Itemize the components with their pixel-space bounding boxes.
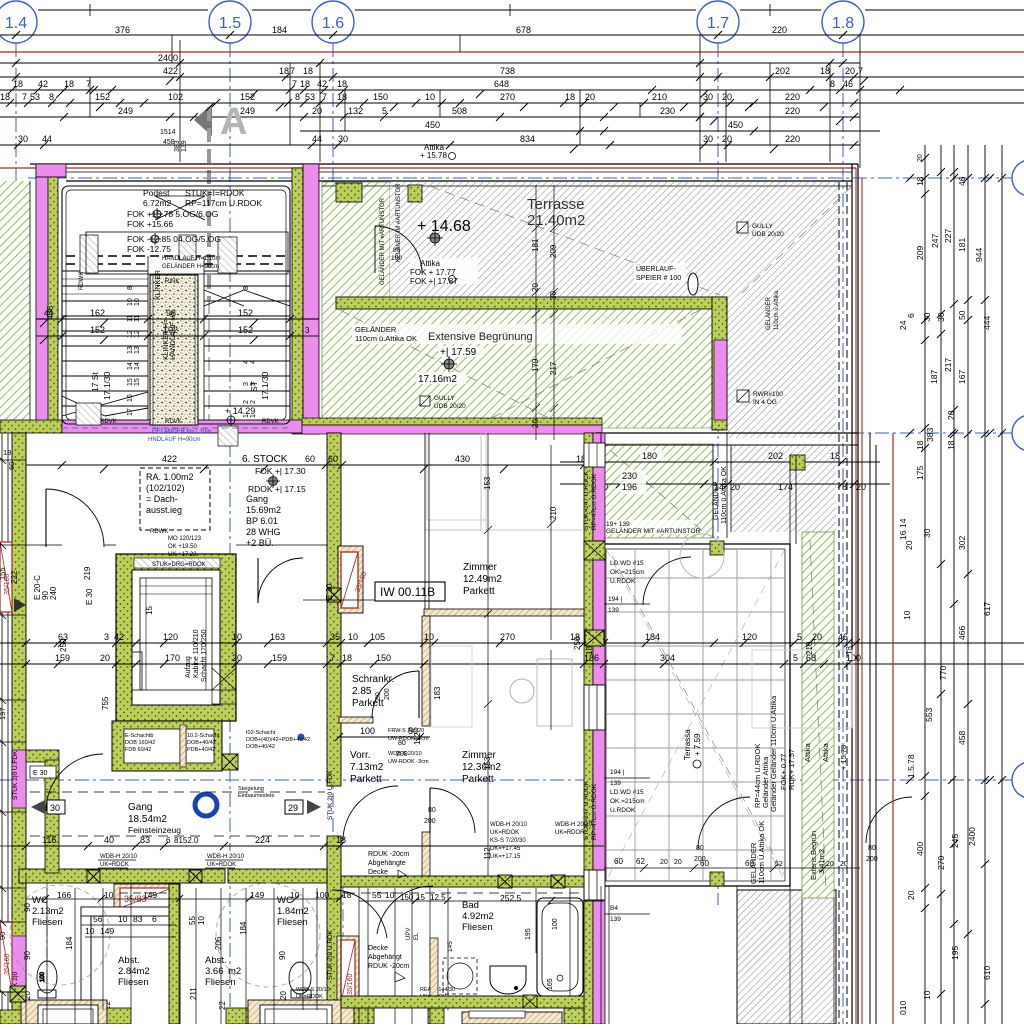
- svg-text:7: 7: [858, 66, 863, 76]
- grid bubble right y780: [1012, 762, 1024, 798]
- svg-text:20: 20: [312, 106, 322, 116]
- window IW00.11B tan frame: [338, 546, 368, 613]
- svg-text:STUK=DRG=RDOK: STUK=DRG=RDOK: [152, 562, 206, 568]
- hatched pillar a: [80, 235, 98, 273]
- dimension row y103: [0, 99, 1024, 107]
- svg-text:18: 18: [820, 66, 830, 76]
- svg-text:DOB+40/42: DOB+40/42: [246, 744, 275, 750]
- svg-text:227: 227: [943, 229, 953, 243]
- svg-text:195: 195: [950, 946, 960, 960]
- X junction right wall y630: [585, 630, 604, 646]
- wc left room: [32, 895, 64, 928]
- counter bottom mid: [248, 1000, 354, 1024]
- gang room label: [246, 494, 281, 548]
- svg-text:383: 383: [925, 428, 935, 442]
- svg-text:STUK=I=RDOK: STUK=I=RDOK: [185, 188, 245, 198]
- svg-text:STUK 2|0 U.FDK: STUK 2|0 U.FDK: [327, 770, 334, 820]
- podest inner box line: [86, 232, 288, 274]
- svg-text:2.85: 2.85: [352, 686, 372, 697]
- svg-text:UK +17.22: UK +17.22: [168, 552, 197, 558]
- right dim line x968: [964, 145, 972, 1024]
- svg-text:152: 152: [90, 325, 105, 335]
- svg-text:Fliesen: Fliesen: [118, 977, 149, 988]
- gang-zimmer wall green vertical: [327, 433, 341, 1024]
- gully on begruenung: [420, 395, 466, 410]
- svg-text:60: 60: [614, 857, 623, 866]
- svg-text:WC: WC: [277, 895, 293, 906]
- svg-text:20: 20: [904, 540, 914, 550]
- svg-text:Abgehängte: Abgehängte: [368, 860, 406, 867]
- svg-text:46: 46: [957, 176, 967, 186]
- svg-text:RDVK: RDVK: [100, 419, 117, 425]
- rduk abgehaengte decke note: [368, 851, 409, 878]
- svg-text:553: 553: [924, 708, 934, 722]
- stair riser numbers left: [127, 286, 141, 416]
- svg-text:40: 40: [104, 835, 114, 845]
- wc2 door arc: [332, 890, 387, 938]
- terrace slope dashed diagonals: [340, 186, 852, 890]
- right dim rotated texts: [898, 176, 992, 1015]
- grid axis horizontal y433: [600, 432, 1012, 434]
- svg-text:I02-Schacht: I02-Schacht: [246, 730, 276, 736]
- svg-text:102: 102: [168, 92, 183, 102]
- right dim line x1002: [998, 145, 1006, 1024]
- svg-text:1514: 1514: [160, 129, 176, 136]
- svg-text:944: 944: [974, 248, 984, 262]
- dim texts row y142: [18, 134, 800, 144]
- svg-text:466: 466: [957, 626, 967, 640]
- svg-text:8: 8: [49, 92, 54, 102]
- svg-text:FOK +15.66: FOK +15.66: [127, 219, 173, 229]
- svg-text:149: 149: [100, 926, 114, 936]
- stair blue dashed line bottom: [62, 427, 290, 429]
- left room wall stub: [26, 750, 59, 873]
- svg-text:+ 15.78: + 15.78: [839, 745, 848, 770]
- section cut line grey: [207, 107, 211, 428]
- svg-text:GULLY: GULLY: [434, 395, 455, 402]
- grid axis 1.8 vertical: [842, 43, 844, 1024]
- stair treads left flight: [62, 271, 148, 406]
- svg-text:WDB-H 20/10: WDB-H 20/10: [207, 854, 245, 860]
- svg-text:Terrasse: Terrasse: [527, 196, 585, 213]
- svg-text:ÜDB 20/20: ÜDB 20/20: [752, 230, 784, 238]
- row y465 ticks: [100, 465, 508, 473]
- svg-text:8152.0: 8152.0: [174, 836, 199, 845]
- svg-text:62: 62: [636, 857, 645, 866]
- svg-text:RDVK: RDVK: [165, 419, 182, 425]
- svg-text:4: 4: [250, 360, 257, 364]
- schrank bottom tan wall: [339, 717, 373, 723]
- svg-text:FOK + 17.77: FOK + 17.77: [410, 268, 456, 277]
- window 35x83: [114, 884, 179, 912]
- svg-text:DOB+(40)/42+PDB+40/42: DOB+(40)/42+PDB+40/42: [246, 737, 310, 743]
- terrace bottom wall y433: [596, 433, 858, 445]
- svg-text:6. STOCK: 6. STOCK: [242, 454, 288, 465]
- svg-text:GULLY: GULLY: [752, 223, 773, 230]
- svg-text:GELÄNDER H=90cm: GELÄNDER H=90cm: [162, 263, 219, 270]
- upper rooms partition lines: [427, 433, 584, 530]
- interior partition lines bottom: [26, 873, 584, 1024]
- svg-text:436: 436: [45, 306, 55, 320]
- elevator top hatch strip: [134, 558, 220, 568]
- zimmer 1236 label: [462, 750, 501, 785]
- svg-text:256: 256: [573, 636, 582, 650]
- svg-text:42: 42: [114, 632, 124, 642]
- right wall window e: [584, 870, 605, 900]
- schacht labels: [125, 733, 220, 753]
- svg-text:202: 202: [775, 66, 790, 76]
- svg-text:RDOK +| 17.15: RDOK +| 17.15: [248, 484, 306, 494]
- svg-text:220: 220: [785, 92, 800, 102]
- svg-text:230: 230: [622, 471, 637, 481]
- svg-text:+ 14.68: + 14.68: [417, 218, 471, 235]
- decke abgehaengt note wc2: [0, 0, 1, 1]
- grid bubble 1.8: [822, 1, 864, 43]
- svg-text:18: 18: [342, 653, 352, 663]
- stair treads right flight: [204, 271, 290, 406]
- bottom corridor wall left part: [19, 869, 327, 883]
- svg-text:Feinsteinzeug: Feinsteinzeug: [128, 825, 181, 835]
- door size labels: [375, 688, 878, 863]
- svg-text:80: 80: [868, 845, 876, 852]
- area 17.16m2: [416, 372, 466, 385]
- dim texts y458: [640, 450, 840, 461]
- svg-text:Parkett: Parkett: [350, 774, 382, 785]
- svg-text:10: 10: [425, 92, 435, 102]
- X junction bottom left: [10, 986, 26, 1002]
- grid axis 1.4 vertical: [15, 43, 17, 1024]
- svg-text:80: 80: [696, 845, 704, 852]
- grid header line: [38, 4, 1024, 16]
- svg-text:RINK: RINK: [165, 279, 179, 285]
- svg-text:RP=117cm U.RDOK: RP=117cm U.RDOK: [185, 198, 262, 208]
- main dim row y664: [0, 660, 1024, 668]
- svg-text:UPV: UPV: [406, 928, 412, 940]
- dimension row y35: [0, 31, 1024, 39]
- svg-text:2400: 2400: [158, 53, 178, 63]
- svg-text:110cm ü.Attika: 110cm ü.Attika: [774, 290, 780, 330]
- attika line pair x870: [870, 433, 876, 1024]
- red boundary vertical x856: [855, 168, 857, 1024]
- door arc corridor to left room: [46, 754, 103, 811]
- grey terrace hatch upper: [390, 182, 838, 300]
- ueberlauf speier note: [634, 263, 698, 295]
- svg-text:24: 24: [898, 320, 908, 330]
- svg-text:149: 149: [143, 890, 157, 900]
- right dim line x985: [981, 145, 989, 1024]
- marker 30 left: [31, 800, 65, 814]
- svg-text:1.84m2: 1.84m2: [277, 906, 309, 917]
- dim 252.5: [400, 893, 522, 903]
- svg-text:5: 5: [382, 106, 387, 116]
- stair break line left: [62, 392, 148, 416]
- svg-text:A: A: [220, 101, 247, 143]
- svg-text:Zimmer: Zimmer: [463, 562, 498, 573]
- svg-text:Decke: Decke: [368, 869, 388, 876]
- svg-text:1.5: 1.5: [219, 15, 241, 32]
- svg-text:RP=47cm O.RDOK: RP=47cm O.RDOK: [591, 783, 598, 840]
- svg-text:E 30: E 30: [325, 583, 334, 600]
- red boundary vertical x862: [861, 178, 863, 1024]
- svg-text:211: 211: [189, 987, 198, 1000]
- svg-text:174: 174: [778, 482, 793, 492]
- svg-text:3: 3: [104, 632, 109, 642]
- svg-text:20: 20: [730, 482, 740, 492]
- svg-text:197: 197: [0, 707, 7, 720]
- X junctions on corridor wall: [87, 870, 100, 883]
- svg-text:53: 53: [305, 92, 315, 102]
- svg-text:18: 18: [915, 440, 925, 450]
- svg-text:17.16m2: 17.16m2: [418, 374, 457, 385]
- stair handrail small texts top: [162, 256, 221, 270]
- svg-text:153: 153: [483, 756, 492, 770]
- svg-text:+| 17.59: +| 17.59: [440, 347, 477, 358]
- svg-text:450: 450: [728, 120, 743, 130]
- stair dim texts y333: [90, 325, 310, 335]
- zimmer 1249 label: [463, 562, 502, 597]
- svg-text:3: 3: [305, 326, 310, 335]
- svg-text:209: 209: [915, 246, 925, 260]
- svg-text:7: 7: [292, 79, 297, 89]
- stair interior border rounded: [62, 186, 290, 424]
- bathtub: [537, 898, 583, 996]
- svg-text:ausst.ieg: ausst.ieg: [146, 505, 182, 515]
- 6 stock heading: [162, 454, 586, 465]
- svg-text:18: 18: [336, 835, 346, 845]
- stair landing speckled: [150, 275, 198, 425]
- green hatch vertical strip right of terrace: [802, 532, 834, 898]
- svg-text:(102/102): (102/102): [146, 483, 185, 493]
- svg-text:80: 80: [375, 692, 382, 700]
- svg-text:KLINKER H=: KLINKER H=: [163, 319, 170, 360]
- svg-text:194 |: 194 |: [610, 769, 625, 776]
- svg-text:30: 30: [549, 291, 558, 300]
- toilet left: [37, 961, 57, 998]
- svg-text:5: 5: [793, 653, 798, 663]
- svg-text:E 30: E 30: [85, 588, 94, 605]
- svg-text:116: 116: [42, 835, 56, 845]
- svg-text:252.5: 252.5: [500, 893, 522, 903]
- aux blue axis x47 bottom: [46, 878, 48, 1024]
- svg-text:195: 195: [525, 928, 532, 940]
- svg-text:GELÄNDER: GELÄNDER: [355, 325, 397, 334]
- svg-text:DOB+40/42: DOB+40/42: [187, 740, 216, 746]
- svg-text:220: 220: [785, 134, 800, 144]
- bottom rooms vertical dim lines: [47, 884, 570, 1024]
- svg-text:35/160: 35/160: [4, 953, 11, 975]
- svg-text:18: 18: [300, 79, 310, 89]
- dimension row y90: [0, 86, 1024, 94]
- svg-text:12.49m2: 12.49m2: [463, 574, 502, 585]
- svg-text:100: 100: [391, 255, 402, 262]
- svg-text:Attika: Attika: [821, 742, 830, 762]
- gang 18.54 label: [128, 802, 181, 835]
- svg-text:10: 10: [232, 632, 242, 642]
- svg-text:508: 508: [452, 106, 467, 116]
- svg-text:270: 270: [500, 92, 515, 102]
- left red window b: [0, 922, 12, 992]
- svg-text:STUK 2|0 U.RDK: STUK 2|0 U.RDK: [327, 929, 334, 980]
- svg-text:105: 105: [370, 632, 385, 642]
- svg-text:30: 30: [338, 134, 348, 144]
- svg-text:UK=+17.15: UK=+17.15: [490, 854, 521, 860]
- rotated wall notes right: [12, 470, 598, 1000]
- marker 29 right: [285, 800, 321, 814]
- schrank right tan wall upper: [422, 616, 430, 726]
- svg-text:196: 196: [622, 482, 637, 492]
- svg-text:30: 30: [922, 312, 932, 322]
- svg-text:55: 55: [372, 890, 382, 900]
- frw notes right of schacht: [246, 728, 429, 765]
- svg-text:15: 15: [145, 606, 154, 615]
- svg-text:+ 15.78: + 15.78: [420, 151, 447, 160]
- svg-text:2: 2: [243, 400, 250, 404]
- extra tick marks rows: [86, 59, 904, 149]
- svg-text:10.2-Schacht: 10.2-Schacht: [187, 733, 220, 739]
- door arc gang to zimmer: [258, 558, 303, 603]
- svg-text:Fliesen: Fliesen: [462, 922, 493, 933]
- terrace interior dim chains x536 x554: [532, 185, 558, 440]
- svg-text:139: 139: [181, 140, 188, 152]
- svg-text:166: 166: [57, 890, 71, 900]
- attika level note: [420, 143, 456, 160]
- gelaender note on hatch: [352, 324, 682, 344]
- svg-text:Extensive Begrünung: Extensive Begrünung: [428, 331, 533, 343]
- svg-text:245: 245: [950, 834, 960, 848]
- door arc right room b: [698, 797, 750, 849]
- svg-text:5: 5: [797, 632, 802, 642]
- left wall magenta pieces: [12, 750, 26, 986]
- svg-text:110cm Ü.Attika OK: 110cm Ü.Attika OK: [757, 821, 766, 884]
- svg-text:60: 60: [745, 859, 754, 868]
- grid axis 1.7 vertical: [717, 43, 719, 905]
- svg-text:11: 11: [127, 315, 134, 322]
- svg-text:18: 18: [830, 451, 840, 461]
- svg-text:RUK+ 17.57: RUK+ 17.57: [787, 749, 796, 790]
- stair level +14.29: [225, 406, 255, 426]
- svg-text:184: 184: [239, 921, 248, 935]
- stair block left wall green: [48, 168, 58, 430]
- svg-text:60: 60: [305, 454, 315, 464]
- svg-text:150: 150: [373, 92, 388, 102]
- svg-text:KLINKER: KLINKER: [155, 270, 162, 300]
- svg-text:2400: 2400: [967, 827, 977, 846]
- svg-text:RP=47cm O.RDOK: RP=47cm O.RDOK: [591, 473, 598, 530]
- svg-text:7: 7: [322, 92, 327, 102]
- svg-text:18: 18: [946, 440, 956, 450]
- gelaender mit note lower begruenung: [604, 520, 701, 535]
- svg-text:UK=RDOR: UK=RDOR: [555, 830, 585, 836]
- svg-text:184: 184: [272, 25, 287, 35]
- svg-text:444: 444: [982, 316, 992, 330]
- svg-text:200: 200: [384, 688, 391, 700]
- svg-text:240: 240: [49, 586, 58, 600]
- svg-text:738: 738: [500, 66, 515, 76]
- svg-text:217: 217: [943, 358, 953, 372]
- begruenung right wall: [712, 297, 727, 430]
- svg-text:20: 20: [722, 92, 732, 102]
- svg-text:83: 83: [140, 835, 150, 845]
- svg-text:230: 230: [660, 106, 675, 116]
- door arc right room c: [866, 797, 912, 843]
- svg-text:755: 755: [101, 696, 110, 710]
- schrank label: [352, 674, 394, 709]
- svg-text:10: 10: [197, 916, 206, 925]
- svg-text:Vorr.: Vorr.: [350, 750, 371, 761]
- svg-text:210: 210: [549, 506, 558, 520]
- svg-text:44: 44: [42, 134, 52, 144]
- fliesen room lines faint: [0, 0, 1, 1]
- svg-text:LD.WD #15: LD.WD #15: [610, 789, 644, 796]
- svg-text:17.1/30: 17.1/30: [260, 371, 270, 400]
- svg-text:WC: WC: [32, 895, 48, 906]
- svg-text:458: 458: [957, 731, 967, 745]
- svg-text:Abst.: Abst.: [118, 955, 140, 966]
- ld.wd notes right rooms: [608, 560, 645, 923]
- blue dot marker: [298, 734, 305, 741]
- svg-text:1.5.78: 1.5.78: [906, 754, 916, 778]
- attika fok labels: [410, 258, 478, 286]
- main dim row y643: [0, 639, 1024, 647]
- svg-text:194 |: 194 |: [608, 596, 623, 603]
- svg-text:13: 13: [134, 346, 141, 354]
- svg-text:10: 10: [902, 610, 912, 620]
- room sep line upper apartment: [26, 433, 327, 545]
- svg-text:170: 170: [165, 653, 180, 663]
- svg-text:222: 222: [10, 570, 19, 584]
- vertical micro dims near x172: [160, 129, 924, 162]
- svg-text:200: 200: [424, 818, 436, 825]
- X junctions right bottom wall: [498, 875, 512, 888]
- terrace corner green blocks: [710, 541, 724, 555]
- svg-text:IW 00.11B: IW 00.11B: [380, 585, 435, 599]
- 194 139 upper right: [610, 769, 625, 787]
- tan wall wc-abst: [81, 884, 180, 1024]
- right apartment wall green: [584, 433, 593, 1024]
- svg-text:8: 8: [243, 286, 250, 290]
- svg-text:RA. 1.00m2: RA. 1.00m2: [146, 472, 194, 482]
- grid axis 1.6 vertical: [332, 43, 334, 1024]
- svg-text:162: 162: [90, 308, 105, 318]
- svg-text:17.1/30: 17.1/30: [102, 371, 112, 400]
- svg-text:Einbaumestele: Einbaumestele: [238, 793, 274, 799]
- svg-text:GELÄNDER: GELÄNDER: [765, 296, 772, 330]
- svg-text:247: 247: [930, 234, 940, 248]
- aux blue axis x343 bottom: [342, 886, 344, 1024]
- fok 17.30: [248, 466, 306, 494]
- svg-text:50: 50: [957, 310, 967, 320]
- svg-text:30: 30: [703, 134, 713, 144]
- level +14.68: [417, 218, 471, 246]
- svg-text:RDWK: RDWK: [79, 272, 85, 290]
- svg-text:GELÄNDER MIT #ARTUNSTOR: GELÄNDER MIT #ARTUNSTOR: [606, 527, 701, 535]
- svg-text:217: 217: [549, 361, 558, 375]
- svg-text:10: 10: [348, 632, 358, 642]
- svg-text:29: 29: [288, 803, 298, 813]
- svg-text:20: 20: [722, 134, 732, 144]
- svg-text:132: 132: [348, 106, 363, 116]
- svg-text:12: 12: [127, 330, 134, 338]
- svg-text:PDB+40/42: PDB+40/42: [187, 747, 215, 753]
- svg-text:010: 010: [898, 1001, 908, 1015]
- dim texts row y114: [118, 106, 800, 116]
- svg-text:648: 648: [494, 79, 509, 89]
- svg-text:8: 8: [127, 286, 134, 290]
- svg-text:2.84m2: 2.84m2: [118, 966, 150, 977]
- svg-text:187: 187: [929, 370, 939, 384]
- svg-text:18.54m2: 18.54m2: [128, 814, 167, 825]
- dim texts y661: [55, 653, 861, 663]
